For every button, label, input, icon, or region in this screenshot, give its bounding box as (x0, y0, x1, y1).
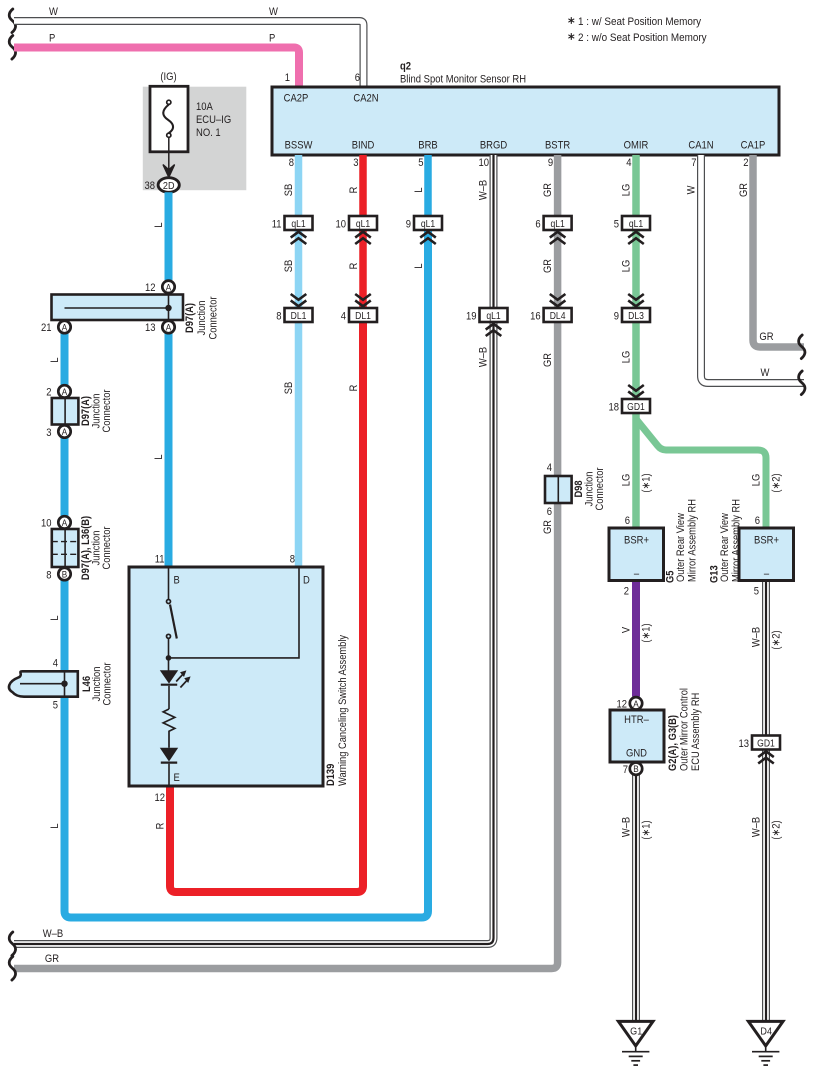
svg-text:W–B: W–B (478, 347, 490, 367)
svg-text:P: P (269, 33, 275, 45)
svg-text:12: 12 (145, 282, 156, 294)
svg-text:ECU–IG: ECU–IG (196, 114, 231, 126)
svg-text:q2: q2 (400, 61, 411, 73)
svg-text:Outer Mirror Control: Outer Mirror Control (679, 688, 691, 771)
svg-text:1 : w/ Seat Position Memory: 1 : w/ Seat Position Memory (578, 17, 702, 29)
svg-text:LG: LG (621, 184, 633, 197)
svg-text:1: 1 (285, 72, 291, 84)
svg-text:LG: LG (621, 351, 633, 364)
svg-text:Outer Rear View: Outer Rear View (675, 513, 687, 582)
svg-text:12: 12 (154, 792, 165, 804)
svg-text:9: 9 (548, 157, 554, 169)
svg-text:8: 8 (289, 157, 295, 169)
svg-text:(∗2): (∗2) (771, 473, 783, 492)
svg-text:DL4: DL4 (550, 310, 566, 321)
svg-text:qL1: qL1 (486, 310, 500, 321)
svg-text:GR: GR (542, 183, 554, 197)
svg-text:11: 11 (155, 554, 165, 566)
svg-text:NO. 1: NO. 1 (196, 127, 221, 139)
svg-text:2: 2 (743, 157, 749, 169)
svg-text:D139: D139 (325, 763, 337, 786)
svg-text:GD1: GD1 (757, 738, 775, 749)
svg-text:CA1N: CA1N (688, 140, 713, 152)
svg-text:SB: SB (283, 382, 295, 395)
svg-text:L: L (413, 187, 425, 192)
svg-text:W: W (761, 367, 770, 379)
svg-text:2 : w/o Seat Position Memory: 2 : w/o Seat Position Memory (578, 33, 707, 45)
svg-text:4: 4 (547, 462, 553, 474)
svg-text:10: 10 (41, 518, 52, 530)
svg-text:BSTR: BSTR (545, 140, 570, 152)
svg-text:BSR+: BSR+ (624, 535, 649, 547)
svg-text:5: 5 (418, 157, 424, 169)
svg-text:qL1: qL1 (356, 218, 370, 229)
svg-text:D4: D4 (760, 1026, 772, 1038)
svg-text:4: 4 (626, 157, 632, 169)
svg-text:7: 7 (691, 157, 697, 169)
svg-text:2D: 2D (163, 180, 175, 192)
svg-text:CA2P: CA2P (284, 93, 309, 105)
svg-text:R: R (348, 385, 360, 392)
svg-text:38: 38 (144, 180, 155, 192)
svg-text:qL1: qL1 (421, 218, 435, 229)
svg-text:GR: GR (759, 331, 773, 343)
svg-text:R: R (348, 263, 360, 270)
svg-text:5: 5 (53, 700, 59, 712)
svg-text:16: 16 (530, 311, 541, 323)
svg-text:Connector: Connector (101, 526, 113, 570)
svg-text:2: 2 (624, 586, 630, 598)
svg-text:(IG): (IG) (160, 71, 176, 83)
svg-text:9: 9 (614, 311, 620, 323)
svg-text:Junction: Junction (196, 301, 208, 336)
svg-text:Mirror Assembly RH: Mirror Assembly RH (687, 499, 699, 582)
svg-text:A: A (62, 322, 68, 333)
svg-text:–: – (764, 568, 770, 580)
svg-text:Blind Spot Monitor Sensor RH: Blind Spot Monitor Sensor RH (400, 74, 526, 86)
svg-text:6: 6 (625, 515, 631, 527)
svg-text:OMIR: OMIR (624, 140, 649, 152)
svg-text:(∗1): (∗1) (641, 473, 653, 492)
svg-text:ECU Assembly RH: ECU Assembly RH (690, 693, 702, 771)
svg-text:Outer Rear View: Outer Rear View (719, 513, 731, 582)
svg-text:8: 8 (46, 570, 52, 582)
svg-text:12: 12 (616, 699, 627, 711)
svg-text:CA2N: CA2N (353, 93, 378, 105)
svg-text:6: 6 (755, 515, 761, 527)
svg-text:B: B (174, 575, 180, 587)
svg-text:A: A (62, 517, 68, 528)
svg-text:LG: LG (751, 474, 763, 487)
svg-text:Connector: Connector (101, 389, 113, 433)
svg-text:SB: SB (283, 260, 295, 273)
svg-text:A: A (166, 322, 172, 333)
svg-text:18: 18 (608, 402, 619, 414)
svg-text:L: L (49, 357, 61, 362)
svg-text:DL3: DL3 (628, 310, 644, 321)
svg-text:W: W (686, 185, 698, 194)
svg-text:Warning Canceling Switch Assem: Warning Canceling Switch Assembly (337, 634, 349, 786)
svg-text:6: 6 (535, 219, 541, 231)
svg-text:(∗1): (∗1) (641, 623, 653, 642)
svg-text:R: R (348, 187, 360, 194)
svg-text:A: A (62, 386, 68, 397)
svg-text:19: 19 (466, 311, 477, 323)
svg-text:–: – (634, 568, 640, 580)
svg-text:4: 4 (53, 658, 59, 670)
svg-text:L: L (49, 823, 61, 828)
svg-text:E: E (174, 772, 180, 784)
svg-text:3: 3 (353, 157, 359, 169)
svg-text:6: 6 (547, 506, 553, 518)
svg-text:13: 13 (738, 738, 749, 750)
svg-text:D97(A): D97(A) (184, 303, 196, 333)
svg-text:GR: GR (738, 183, 750, 197)
svg-text:GR: GR (542, 259, 554, 273)
svg-text:HTR–: HTR– (624, 714, 649, 726)
svg-text:B: B (62, 569, 68, 580)
svg-text:L: L (153, 222, 165, 227)
svg-text:4: 4 (341, 311, 347, 323)
svg-text:G2(A), G3(B): G2(A), G3(B) (667, 715, 679, 771)
svg-text:11: 11 (272, 219, 282, 231)
svg-text:DL1: DL1 (355, 310, 371, 321)
svg-text:6: 6 (355, 72, 361, 84)
svg-text:GND: GND (626, 748, 647, 760)
svg-text:A: A (166, 282, 172, 293)
svg-text:W: W (269, 6, 278, 18)
svg-text:(∗1): (∗1) (641, 820, 653, 839)
svg-text:CA1P: CA1P (741, 140, 766, 152)
svg-text:BSSW: BSSW (285, 140, 313, 152)
svg-text:(∗2): (∗2) (771, 630, 783, 649)
svg-text:9: 9 (406, 219, 412, 231)
svg-text:qL1: qL1 (550, 218, 564, 229)
svg-text:5: 5 (614, 219, 620, 231)
svg-text:7: 7 (623, 764, 629, 776)
svg-text:A: A (633, 698, 639, 709)
svg-text:5: 5 (754, 586, 760, 598)
svg-text:GD1: GD1 (627, 401, 645, 412)
svg-text:10A: 10A (196, 101, 213, 113)
svg-text:A: A (62, 426, 68, 437)
svg-text:BSR+: BSR+ (754, 535, 779, 547)
svg-text:10: 10 (335, 219, 346, 231)
svg-text:LG: LG (621, 260, 633, 273)
svg-text:G1: G1 (630, 1026, 642, 1038)
svg-text:Connector: Connector (102, 662, 114, 706)
svg-text:W–B: W–B (621, 817, 633, 837)
svg-text:P: P (49, 33, 55, 45)
svg-text:LG: LG (621, 474, 633, 487)
svg-text:8: 8 (290, 554, 296, 566)
svg-text:L: L (153, 454, 165, 459)
svg-text:qL1: qL1 (629, 218, 643, 229)
svg-text:W–B: W–B (751, 627, 763, 647)
svg-text:Connector: Connector (208, 296, 220, 340)
svg-text:W–B: W–B (478, 180, 490, 200)
svg-text:V: V (621, 627, 633, 633)
svg-text:qL1: qL1 (291, 218, 305, 229)
svg-text:10: 10 (478, 157, 489, 169)
svg-text:W–B: W–B (43, 928, 64, 940)
svg-text:GR: GR (45, 953, 59, 965)
svg-text:21: 21 (41, 322, 52, 334)
svg-text:DL1: DL1 (291, 310, 307, 321)
svg-text:B: B (633, 764, 639, 775)
svg-text:D: D (303, 575, 310, 587)
svg-text:Connector: Connector (594, 467, 606, 511)
svg-text:R: R (155, 823, 167, 830)
svg-text:(∗2): (∗2) (771, 820, 783, 839)
svg-text:BRB: BRB (418, 140, 438, 152)
svg-text:GR: GR (542, 520, 554, 534)
svg-text:2: 2 (46, 387, 52, 399)
svg-text:Mirror Assembly RH: Mirror Assembly RH (731, 499, 743, 582)
svg-text:3: 3 (46, 427, 52, 439)
svg-text:8: 8 (276, 311, 282, 323)
svg-text:BIND: BIND (352, 140, 375, 152)
svg-text:L: L (49, 615, 61, 620)
svg-text:SB: SB (283, 184, 295, 197)
svg-text:GR: GR (542, 353, 554, 367)
svg-text:W–B: W–B (751, 817, 763, 837)
svg-text:13: 13 (145, 322, 156, 334)
svg-text:BRGD: BRGD (480, 140, 507, 152)
svg-text:L: L (413, 263, 425, 268)
svg-text:W: W (49, 6, 58, 18)
